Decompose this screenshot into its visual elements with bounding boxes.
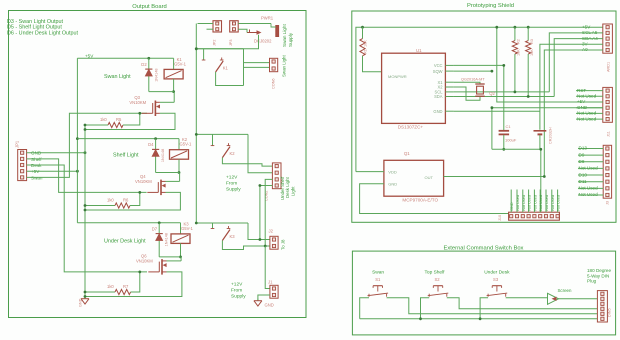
svg-text:Under Desk Light: Under Desk Light [104, 239, 146, 245]
svg-text:Prototyping Shield: Prototyping Shield [467, 3, 514, 9]
svg-text:1N4148: 1N4148 [165, 233, 169, 246]
svg-text:1k0: 1k0 [107, 198, 114, 203]
svg-text:D10: D10 [579, 172, 588, 177]
svg-text:Not Used: Not Used [516, 195, 520, 211]
svg-text:Not Used: Not Used [577, 116, 597, 121]
svg-text:1k0: 1k0 [107, 284, 114, 289]
svg-text:1N4148: 1N4148 [154, 68, 158, 81]
svg-text:100uF: 100uF [505, 138, 517, 143]
svg-text:Supply: Supply [226, 187, 241, 193]
svg-text:Swan: Swan [372, 269, 384, 275]
svg-text:SDA: SDA [434, 94, 443, 99]
svg-text:C1: C1 [506, 124, 512, 129]
svg-text:Plug: Plug [587, 279, 597, 284]
svg-text:K3: K3 [230, 234, 236, 239]
svg-text:R7: R7 [123, 284, 129, 289]
svg-text:MCP9700A-E/TO: MCP9700A-E/TO [402, 198, 438, 203]
svg-text:Q2: Q2 [489, 91, 495, 96]
svg-text:+5V: +5V [582, 24, 591, 29]
svg-text:Swan Light: Swan Light [282, 24, 287, 47]
svg-text:Swan Light: Swan Light [104, 74, 131, 80]
svg-text:DS1307ZC+: DS1307ZC+ [398, 125, 424, 130]
svg-text:1k0: 1k0 [100, 117, 107, 122]
svg-text:JP1: JP1 [15, 140, 20, 148]
svg-text:10K: 10K [364, 40, 368, 47]
svg-text:VN10KM: VN10KM [129, 100, 146, 105]
svg-text:Not Used: Not Used [579, 166, 599, 171]
svg-text:Supply: Supply [288, 32, 293, 47]
svg-text:Not Used: Not Used [551, 195, 555, 211]
svg-text:GND: GND [79, 298, 83, 307]
svg-text:D6 - Under Desk Light Output: D6 - Under Desk Light Output [7, 30, 79, 36]
svg-text:Not Used: Not Used [522, 195, 526, 211]
svg-text:RST: RST [577, 88, 586, 93]
svg-text:5-Way DIN: 5-Way DIN [587, 273, 609, 278]
svg-text:Not Used: Not Used [539, 195, 543, 211]
svg-text:R5: R5 [116, 117, 122, 122]
svg-text:S3: S3 [493, 277, 499, 282]
svg-text:Shelf Light: Shelf Light [113, 153, 139, 159]
svg-text:Swan Light: Swan Light [282, 54, 287, 77]
svg-text:Q1: Q1 [404, 151, 410, 156]
svg-text:D13: D13 [579, 146, 588, 151]
svg-text:VCC: VCC [434, 63, 443, 68]
svg-text:+5V: +5V [85, 54, 94, 59]
svg-text:J10: J10 [498, 215, 502, 221]
svg-text:Light: Light [290, 186, 295, 196]
svg-text:ARD1: ARD1 [607, 62, 611, 72]
svg-text:To J8: To J8 [281, 239, 286, 250]
svg-text:J3: J3 [606, 201, 610, 205]
svg-text:+12V: +12V [226, 175, 238, 181]
svg-text:Not Used: Not Used [533, 195, 537, 211]
svg-text:R3: R3 [530, 39, 534, 44]
svg-text:GND: GND [510, 202, 514, 211]
svg-text:J1: J1 [268, 280, 273, 285]
svg-text:Not Used: Not Used [579, 186, 599, 191]
svg-text:+12V: +12V [231, 282, 243, 288]
svg-text:Not Used: Not Used [577, 94, 597, 99]
svg-text:VDD: VDD [388, 169, 397, 174]
svg-text:D2: D2 [141, 62, 147, 67]
svg-text:U1: U1 [416, 48, 422, 53]
svg-text:Output Board: Output Board [132, 4, 166, 10]
svg-text:Not Used: Not Used [528, 195, 532, 211]
svg-text:D11: D11 [579, 179, 588, 184]
svg-text:CR2032H: CR2032H [549, 127, 553, 144]
svg-text:D8: D8 [579, 159, 585, 164]
svg-text:K2: K2 [230, 151, 236, 156]
svg-text:D9: D9 [579, 152, 585, 157]
svg-text:J2: J2 [269, 229, 274, 234]
svg-text:180 Degree: 180 Degree [587, 268, 611, 273]
svg-text:Top Shelf: Top Shelf [425, 269, 446, 275]
svg-text:S1: S1 [375, 277, 381, 282]
svg-text:CON6: CON6 [272, 78, 276, 89]
svg-text:J11: J11 [607, 131, 611, 137]
svg-text:10K: 10K [530, 49, 534, 56]
svg-text:VN10KM: VN10KM [136, 258, 153, 263]
svg-text:JP2: JP2 [213, 39, 217, 46]
svg-text:R1: R1 [364, 49, 368, 54]
svg-text:D4: D4 [148, 142, 154, 147]
svg-text:JP3: JP3 [229, 39, 233, 46]
svg-text:From: From [231, 288, 242, 294]
svg-text:R2: R2 [517, 39, 521, 44]
svg-text:External Command Switch Box: External Command Switch Box [444, 245, 524, 251]
svg-text:Under Desk: Under Desk [484, 269, 510, 275]
svg-text:10K: 10K [517, 49, 521, 56]
svg-text:QG2016A-MT: QG2016A-MT [461, 77, 485, 81]
svg-text:DCJ0202: DCJ0202 [254, 39, 272, 44]
svg-text:G5V-1: G5V-1 [174, 61, 187, 66]
svg-text:Not Used: Not Used [577, 111, 597, 116]
svg-text:D7: D7 [152, 226, 158, 231]
svg-text:GND: GND [265, 303, 274, 308]
svg-text:Not Used: Not Used [579, 192, 599, 197]
svg-text:GND: GND [388, 182, 397, 187]
svg-text:1N4148: 1N4148 [161, 149, 165, 162]
svg-text:PWR1: PWR1 [261, 16, 274, 21]
svg-text:SQW: SQW [433, 69, 443, 74]
svg-text:S2: S2 [434, 277, 440, 282]
svg-text:Not Used: Not Used [545, 195, 549, 211]
svg-text:K1: K1 [223, 66, 229, 71]
svg-text:R6: R6 [123, 198, 129, 203]
svg-text:DIN5: DIN5 [608, 308, 612, 317]
svg-text:From: From [226, 181, 237, 187]
svg-text:MONPWR: MONPWR [388, 74, 407, 79]
svg-text:G5V-1: G5V-1 [181, 226, 194, 231]
svg-text:OUT: OUT [425, 175, 434, 180]
svg-text:GND: GND [433, 109, 442, 114]
svg-text:G5V-1: G5V-1 [180, 142, 193, 147]
svg-text:Supply: Supply [231, 294, 246, 300]
svg-text:Screen: Screen [558, 288, 572, 293]
svg-text:Not Used: Not Used [557, 195, 561, 211]
svg-text:VN10KM: VN10KM [135, 179, 152, 184]
